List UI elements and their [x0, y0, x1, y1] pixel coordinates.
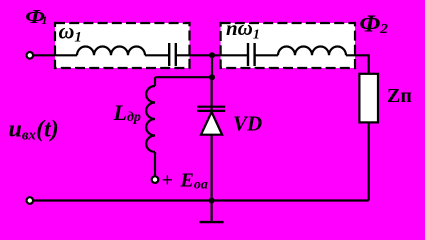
input terminal top	[27, 52, 34, 59]
wire: node B left to Ldr branch	[155, 76, 212, 78]
terminal +Eoa	[152, 176, 159, 183]
svg-text:1: 1	[42, 13, 48, 27]
wire: VD to bottom rail	[211, 135, 213, 201]
svg-text:+: +	[162, 170, 173, 192]
svg-text:Zп: Zп	[387, 85, 412, 107]
inductor Ldr (choke, vertical)	[146, 86, 155, 152]
bottom rail wire	[33, 199, 369, 201]
wire: Zp bottom to bottom rail	[368, 122, 370, 200]
wire: top terminal to inductor L1	[33, 54, 77, 56]
varicap VD triangle	[201, 112, 222, 135]
ground stem	[211, 201, 213, 223]
wire: node A down to node B	[211, 55, 213, 77]
wire: node B down to varicap VD	[211, 77, 213, 112]
svg-text:VD: VD	[233, 112, 262, 136]
wire: L2 out of F2 to right corner down to Zp	[346, 55, 369, 74]
filter block box F2 (dashed)	[221, 23, 355, 68]
wire: choke bottom to +E terminal	[154, 152, 156, 176]
node A junction dot	[209, 52, 215, 58]
input terminal bottom	[27, 197, 34, 204]
node C junction dot	[209, 198, 215, 204]
ground bar	[199, 221, 223, 223]
capacitor C1	[168, 43, 170, 66]
capacitor C2 (in box F2)	[247, 43, 249, 66]
varicap VD cathode bars	[197, 106, 225, 108]
inductor L2 (in box F2)	[278, 46, 346, 55]
impedance Zp box	[359, 74, 378, 123]
wire: C2 to inductor L2	[255, 54, 278, 56]
wire: down to choke coil top	[154, 77, 156, 86]
filter block box F1 (dashed)	[55, 23, 190, 68]
inductor L1 (in box F1)	[77, 46, 145, 55]
node B junction dot	[209, 74, 215, 80]
wire: C1 to C2 through junction	[176, 54, 248, 56]
wire: L1 to C1	[145, 54, 169, 56]
